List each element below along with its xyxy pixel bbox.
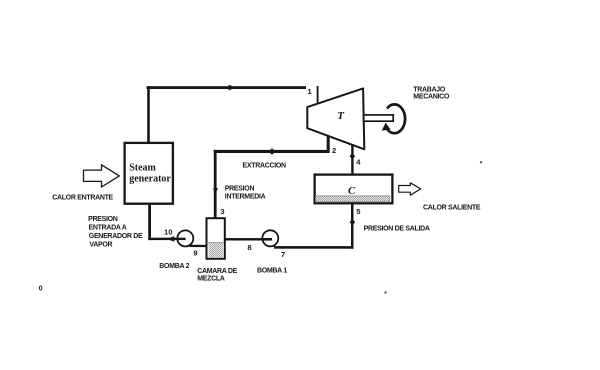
- svg-text:TRABAJO: TRABAJO: [413, 86, 446, 93]
- turbine U: T body: [307, 88, 364, 149]
- wire: steam generator riser: [147, 86, 150, 143]
- arrowhead to condenser (points down): [350, 153, 356, 159]
- svg-text:7: 7: [281, 250, 285, 259]
- svg-text:9: 9: [193, 249, 197, 258]
- wire: mixing chamber to pump 2: [190, 245, 207, 247]
- wire: pump 2 to steam generator inlet: [149, 238, 177, 240]
- wire: bottom run to pump 1: [274, 246, 354, 249]
- mixing chamber U: CAMARA DE MEZCLA box: [207, 218, 225, 259]
- wire: pump 1 to mixing chamber: [225, 238, 262, 240]
- rotation symbol arrowhead: [382, 123, 391, 131]
- arrowhead on condenser outlet (points down): [350, 219, 356, 225]
- svg-text:MEZCLA: MEZCLA: [197, 276, 225, 283]
- mixing chamber gray fill: [209, 243, 223, 257]
- svg-text:0: 0: [39, 286, 43, 293]
- wire: turbine inlet stub: [317, 86, 319, 104]
- hollow arrow: calor entrante: [84, 165, 120, 187]
- mixing chamber divider line: [208, 242, 223, 243]
- svg-text:generator: generator: [129, 174, 171, 185]
- svg-text:PRESION: PRESION: [225, 186, 255, 193]
- svg-text:PRESION DE SALIDA: PRESION DE SALIDA: [364, 226, 430, 233]
- wire: condenser outlet down (node 5): [351, 203, 354, 248]
- rotation symbol (circular arrow): [387, 104, 405, 133]
- hollow arrow: calor saliente: [399, 183, 421, 195]
- svg-text:Steam: Steam: [129, 163, 156, 174]
- svg-text:EXTRACCION: EXTRACCION: [243, 162, 287, 169]
- svg-text:BOMBA 1: BOMBA 1: [257, 268, 287, 275]
- wire: steam generator downcomer: [148, 205, 151, 241]
- svg-text:CALOR ENTRANTE: CALOR ENTRANTE: [52, 195, 113, 202]
- svg-text:CAMARA DE: CAMARA DE: [197, 268, 237, 275]
- wire: turbine to condenser (node 4): [351, 144, 353, 175]
- wire: extraction line horizontal: [214, 150, 330, 153]
- condenser U: C box: [315, 175, 393, 204]
- shaft from turbine to rotation symbol: [364, 115, 394, 121]
- stray comma mark: [384, 291, 386, 293]
- svg-text:10: 10: [164, 228, 172, 237]
- svg-text:C: C: [348, 185, 356, 197]
- arrowhead on extraction line (points left): [268, 148, 275, 154]
- wire: pump 2 inner stub: [177, 238, 186, 240]
- steam generator U: box: [125, 143, 173, 204]
- svg-text:PRESION: PRESION: [88, 216, 118, 223]
- pump U: BOMBA 2 circle: [177, 230, 193, 246]
- svg-text:ENTRADA A: ENTRADA A: [89, 225, 127, 232]
- arrowhead on main steam line (points right): [229, 85, 237, 91]
- wire: turbine extraction outlet elbow (node 2): [327, 136, 330, 153]
- svg-text:8: 8: [247, 243, 251, 252]
- svg-text:BOMBA 2: BOMBA 2: [159, 263, 189, 270]
- svg-text:INTERMEDIA: INTERMEDIA: [225, 194, 266, 201]
- wire: extraction drop to mixing chamber: [214, 150, 217, 219]
- svg-text:GENERADOR DE: GENERADOR DE: [89, 233, 143, 240]
- wire: steam generator top to turbine (main steam line): [147, 86, 307, 89]
- svg-text:CALOR SALIENTE: CALOR SALIENTE: [423, 205, 481, 212]
- arrowhead toward steam generator (points left): [167, 236, 174, 242]
- condenser water strip: [316, 196, 390, 202]
- svg-text:VAPOR: VAPOR: [89, 242, 112, 249]
- arrowhead on extraction drop (points down): [213, 188, 218, 193]
- svg-text:2: 2: [332, 146, 336, 155]
- wire: pump 1 inner stub: [262, 238, 272, 241]
- svg-text:3: 3: [220, 207, 224, 216]
- stray dot mark: [480, 161, 482, 163]
- pump U: BOMBA 1 circle: [262, 230, 278, 246]
- svg-text:MECANICO: MECANICO: [413, 93, 450, 100]
